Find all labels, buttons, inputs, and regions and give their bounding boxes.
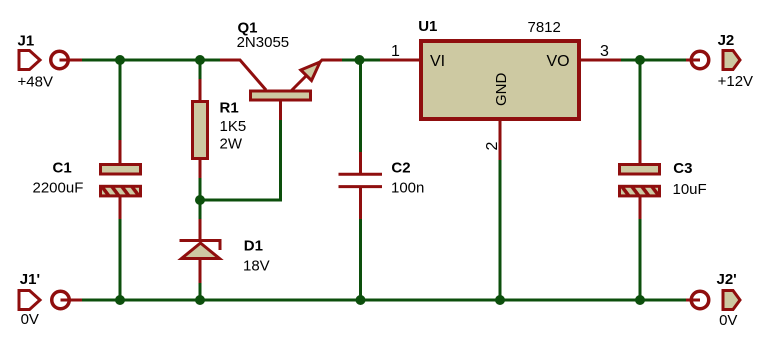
svg-text:C3: C3 (673, 160, 692, 177)
svg-text:R1: R1 (220, 100, 239, 117)
svg-text:GND: GND (493, 73, 510, 107)
svg-text:J2': J2' (717, 271, 737, 288)
svg-text:+48V: +48V (18, 74, 53, 91)
svg-text:1K5: 1K5 (220, 118, 247, 135)
svg-text:7812: 7812 (528, 19, 561, 36)
svg-text:0V: 0V (21, 311, 39, 328)
svg-text:2200uF: 2200uF (33, 180, 84, 197)
svg-text:VO: VO (547, 53, 570, 70)
svg-text:J1': J1' (20, 271, 40, 288)
svg-text:J2: J2 (718, 32, 735, 49)
svg-text:C2: C2 (391, 160, 410, 177)
svg-text:18V: 18V (243, 258, 270, 275)
svg-text:2: 2 (484, 142, 501, 151)
svg-text:VI: VI (430, 53, 445, 70)
svg-text:U1: U1 (418, 18, 437, 35)
svg-text:2N3055: 2N3055 (237, 34, 290, 51)
svg-text:C1: C1 (53, 160, 72, 177)
svg-text:100n: 100n (391, 180, 424, 197)
svg-text:+12V: +12V (718, 73, 753, 90)
svg-text:0V: 0V (719, 312, 737, 329)
svg-text:J1: J1 (18, 33, 35, 50)
svg-text:D1: D1 (244, 238, 263, 255)
svg-text:3: 3 (600, 43, 609, 60)
svg-text:10uF: 10uF (673, 181, 707, 198)
svg-text:1: 1 (391, 43, 400, 60)
svg-text:2W: 2W (220, 136, 243, 153)
